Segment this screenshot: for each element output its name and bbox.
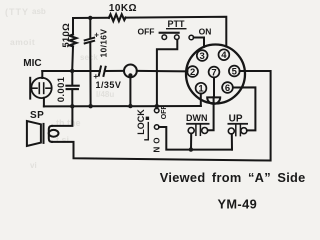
wire: pin 1 lead to ground rail: [200, 94, 202, 106]
wire: speaker bottom terminal: [52, 141, 74, 143]
svg-text:YM-49: YM-49: [217, 197, 257, 212]
svg-text:3: 3: [200, 51, 205, 62]
connector J1 outer shell: [186, 45, 245, 104]
resistor R2 510Ω vertical branch: [72, 18, 74, 35]
faint watermark ghost text: [5, 7, 114, 170]
wire: feedthrough to pin 2: [137, 70, 188, 73]
connector J1 pin 2: [187, 66, 198, 77]
microphone MIC body: [31, 78, 51, 98]
svg-text:OFF: OFF: [161, 105, 168, 120]
wire: UP left contact to common: [231, 134, 233, 150]
switch S1 PTT wire from pole down to ground rail: [157, 40, 177, 107]
microphone MIC front bar: [29, 78, 31, 99]
junction: ground rail / PTT wire: [155, 104, 159, 108]
svg-text:MIC: MIC: [23, 58, 41, 69]
capacitor C3 0.001 branch: [71, 71, 73, 85]
speaker SP cone: [27, 121, 41, 146]
microphone MIC element plates: [38, 83, 40, 93]
svg-text:t si: t si: [56, 135, 69, 145]
speaker SP coil loop: [49, 126, 52, 142]
wire: pin 7 lead down through keyway to DWN: [208, 78, 214, 131]
connector J1 pin 6: [222, 82, 233, 93]
wire: MIC hot wire to 1/35V cap: [42, 70, 100, 72]
svg-text:1: 1: [198, 84, 204, 95]
connector J1 pin 5: [229, 66, 240, 77]
svg-text:7: 7: [211, 67, 216, 78]
svg-text:asb: asb: [32, 7, 46, 16]
connector keyway: [207, 97, 220, 103]
wire: LOCK pole to DWN/UP common: [159, 127, 232, 150]
junction: DWN-UP common / DWN wire: [189, 147, 193, 151]
svg-text:10/16V: 10/16V: [98, 29, 108, 58]
junction: ground rail / 0.001: [70, 104, 74, 108]
pushbutton S3 DWN contacts: [188, 128, 194, 134]
junction: top rail / 10-16V cap: [88, 16, 92, 20]
wire: DWN left contact to common: [190, 134, 192, 150]
svg-text:SP: SP: [30, 110, 44, 121]
svg-text:UP: UP: [229, 113, 243, 124]
svg-text:seck: seck: [80, 53, 98, 62]
speaker SP driver plate: [43, 124, 45, 143]
wire: cap to feedthrough: [105, 70, 124, 72]
pushbutton S4 UP contacts: [228, 128, 234, 134]
pushbutton S4 UP actuator bar: [228, 123, 249, 125]
svg-text:5: 5: [232, 66, 238, 77]
feedthrough capacitor FB: [124, 65, 137, 78]
connector J1 pin 4: [219, 49, 230, 60]
connector J1 pin 3: [197, 50, 208, 61]
svg-text:vi: vi: [30, 161, 37, 170]
junction: ground rail / 10-16V: [88, 104, 92, 108]
svg-text:1/35V: 1/35V: [96, 80, 122, 90]
switch S1 PTT actuator bar: [159, 32, 180, 34]
switch S2 LOCK actuator knob: [146, 117, 149, 120]
svg-text:(TTY: (TTY: [5, 7, 29, 17]
svg-text:PTT: PTT: [168, 19, 186, 29]
wire: top rail right segment to pin 4: [126, 17, 227, 47]
svg-text:4: 4: [221, 50, 227, 61]
svg-text:DWN: DWN: [186, 113, 208, 123]
svg-text:ON: ON: [151, 138, 160, 156]
switch S1 PTT contact circles: [162, 35, 167, 40]
switch S2 LOCK lever: [145, 123, 148, 140]
connector J1 pin 7: [209, 67, 220, 78]
wire: pin 5 lead to speaker return rail: [74, 71, 271, 161]
svg-text:0.001: 0.001: [56, 76, 67, 102]
wire: pin 6 lead to UP switch: [233, 87, 256, 130]
svg-text:2: 2: [190, 67, 195, 78]
wire: ground bottom rail (mic return): [44, 105, 201, 107]
junction: ground rail / feedthrough: [128, 104, 132, 108]
junction: feedthrough bottom dot: [128, 73, 132, 77]
svg-text:510Ω: 510Ω: [61, 23, 72, 48]
pushbutton S3 DWN plunger: [195, 125, 197, 136]
svg-text:LOCK: LOCK: [136, 109, 146, 135]
switch S2 LOCK: stub + contacts: [156, 106, 158, 108]
wire: feedthrough ground lead: [129, 75, 131, 106]
svg-text:ON: ON: [199, 27, 212, 37]
svg-text:amoit: amoit: [10, 37, 35, 47]
resistor R1 10KΩ: [109, 14, 126, 21]
svg-text:Viewed from “A” Side: Viewed from “A” Side: [160, 170, 306, 185]
pushbutton S3 DWN actuator bar: [186, 123, 209, 125]
svg-text:l/48u: l/48u: [96, 90, 114, 99]
label PTT underline: [166, 28, 187, 29]
svg-text:10KΩ: 10KΩ: [109, 3, 137, 14]
capacitor C1 10/16V electrolytic branch: [89, 18, 91, 38]
svg-text:6: 6: [225, 83, 230, 94]
wire: MIC top lead: [41, 71, 43, 78]
junction: mic hot / 510 ohm: [70, 69, 74, 73]
wire: MIC bottom lead: [43, 98, 45, 107]
capacitor C2 1/35V plates: [99, 67, 101, 76]
pushbutton S4 UP plunger: [235, 125, 237, 136]
connector J1 pin 1: [196, 83, 207, 94]
svg-text:OFF: OFF: [138, 26, 155, 36]
switch S1 PTT ON throw wire to pin 3: [194, 38, 204, 47]
wire: speaker top terminal to ground rail: [52, 106, 72, 126]
wire: top supply rail left segment: [73, 17, 109, 19]
